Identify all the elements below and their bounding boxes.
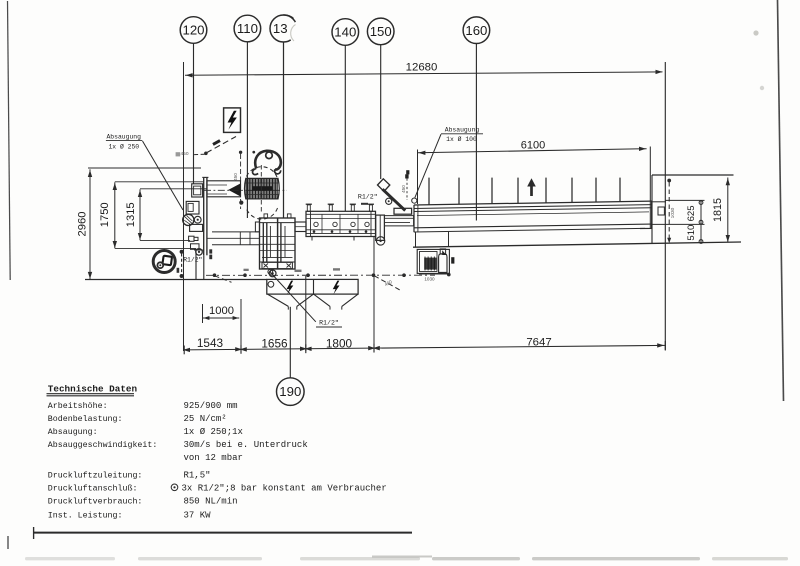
svg-text:Druckluftverbrauch:: Druckluftverbrauch: <box>48 497 143 507</box>
hopper funnels <box>268 294 289 306</box>
pedestal <box>195 250 197 279</box>
tiny scan specks <box>295 270 302 272</box>
centreline pin <box>239 151 242 154</box>
svg-text:120: 120 <box>182 23 204 38</box>
right reference line y=224.4 <box>652 223 705 225</box>
dim 1750 <box>114 182 116 248</box>
page right edge (scan) <box>778 0 784 401</box>
bolt pair <box>189 236 194 241</box>
svg-text:1x Ø 250: 1x Ø 250 <box>108 143 139 151</box>
svg-text:1800: 1800 <box>326 337 353 351</box>
hopper bolt left <box>287 281 294 295</box>
infeed axis mark <box>180 250 184 254</box>
svg-text:R1/2": R1/2" <box>358 194 378 201</box>
drive unit <box>417 249 449 273</box>
hopper body <box>267 279 358 294</box>
svg-text:925/900 mm: 925/900 mm <box>184 401 238 411</box>
cutter head barrel (striped) <box>245 178 280 199</box>
position bubble 120 <box>180 17 207 44</box>
svg-text:Druckluftanschluß:: Druckluftanschluß: <box>48 484 138 494</box>
svg-text:37 KW: 37 KW <box>184 511 212 521</box>
1750 top extension <box>115 181 203 183</box>
infeed rails <box>212 231 260 233</box>
lower box <box>190 224 203 231</box>
spindle centreline <box>204 189 287 191</box>
dim 12680 left extension <box>183 62 185 351</box>
position bubble 130 (scan blob hides the zero) <box>270 15 297 42</box>
svg-text:1030: 1030 <box>424 276 435 281</box>
svg-text:160: 160 <box>465 23 487 38</box>
top posts <box>264 214 268 218</box>
small circle right <box>412 198 417 203</box>
dim 1315 <box>139 189 141 240</box>
svg-text:3x R1/2";8 bar konstant am Ver: 3x R1/2";8 bar konstant am Verbraucher <box>182 484 387 494</box>
conveyor bed <box>414 201 652 205</box>
conveyor base <box>413 242 741 247</box>
position bubble 160 <box>463 17 490 44</box>
swing arm head <box>378 179 390 192</box>
svg-text:110: 110 <box>237 21 258 36</box>
cutter swing circle (dashed) <box>247 167 278 177</box>
air coupling <box>196 249 203 256</box>
bottom scan smudges <box>25 557 115 560</box>
leader wire 140 <box>344 45 346 211</box>
leader wire 110 <box>246 42 248 218</box>
1315 top extension <box>140 188 207 190</box>
svg-text:12680: 12680 <box>406 62 438 74</box>
control emblem <box>153 251 175 273</box>
bottom rule <box>33 532 412 534</box>
faint top-right smudge <box>753 30 758 35</box>
conveyor legs <box>415 232 417 247</box>
svg-text:6100: 6100 <box>521 140 545 152</box>
svg-text:1750: 1750 <box>99 202 111 227</box>
page left edge (scan) <box>8 1 11 280</box>
top box <box>192 184 203 197</box>
electric box (bolt) <box>224 108 241 132</box>
left step <box>255 222 259 232</box>
svg-text:7647: 7647 <box>526 337 551 349</box>
svg-text:510: 510 <box>686 225 697 241</box>
dim 1000 <box>203 317 239 319</box>
hopper bolt right <box>333 281 340 295</box>
dim 12680 line <box>185 72 663 75</box>
mid box <box>186 201 199 214</box>
dim 6100 line <box>418 149 647 153</box>
svg-text:25 N/cm²: 25 N/cm² <box>184 414 227 424</box>
svg-text:1656: 1656 <box>261 336 288 350</box>
dim 6100 left extension <box>417 150 419 205</box>
chain extension x=306 <box>305 276 307 351</box>
Absaugung100 leader <box>415 134 441 197</box>
svg-text:1543: 1543 <box>197 336 224 350</box>
svg-text:von 12 mbar: von 12 mbar <box>184 453 243 463</box>
svg-text:Bodenbelastung:: Bodenbelastung: <box>48 414 123 424</box>
right table centre (dashed) <box>668 182 670 240</box>
svg-text:625: 625 <box>686 205 697 221</box>
svg-text:1815: 1815 <box>712 198 724 222</box>
leader wire 160 <box>475 44 477 221</box>
svg-text:1315: 1315 <box>125 202 137 227</box>
svg-text:1x Ø 100: 1x Ø 100 <box>446 135 477 143</box>
position bubble 140 <box>332 19 359 46</box>
small spout marks <box>405 174 408 178</box>
small hangers under table <box>311 237 313 241</box>
svg-text:Druckluftzuleitung:: Druckluftzuleitung: <box>48 471 143 481</box>
svg-text:1030: 1030 <box>670 207 676 218</box>
svg-text:450: 450 <box>233 173 238 181</box>
leader wire 150 <box>380 45 382 179</box>
svg-text:Absaugung: Absaugung <box>445 127 480 134</box>
support wheel <box>269 270 276 277</box>
dim 6100 right extension <box>649 147 651 229</box>
svg-text:1000: 1000 <box>209 305 234 317</box>
svg-text:Technische Daten: Technische Daten <box>48 383 138 394</box>
2960 top extension <box>88 167 201 169</box>
main plate <box>203 178 205 255</box>
svg-text:R1,5": R1,5" <box>184 471 211 481</box>
floor centreline (dash-dot) <box>206 274 435 276</box>
middle unit base plate <box>262 262 292 268</box>
swing arm base block <box>394 208 412 214</box>
position bubble 190 <box>277 378 305 406</box>
connector bar <box>295 222 306 232</box>
chain extension x=241 <box>240 299 242 352</box>
svg-text:140: 140 <box>334 25 356 40</box>
outfeed table top edge <box>652 174 734 176</box>
svg-text:13: 13 <box>273 21 288 36</box>
fence pins <box>428 178 430 205</box>
svg-text:190: 190 <box>279 384 301 399</box>
small valve right of plate <box>209 249 212 253</box>
roller table bolts <box>314 222 318 226</box>
svg-text:2960: 2960 <box>76 212 88 237</box>
outfeed table bracket <box>652 201 666 203</box>
dashed drop from electric box <box>206 137 236 153</box>
Absaugung250 leader <box>143 141 184 210</box>
dim 1815 <box>727 178 729 243</box>
roller table posts <box>307 205 310 211</box>
spindle <box>207 181 241 197</box>
spindle cone <box>228 183 240 196</box>
roller table frame <box>306 211 376 236</box>
pusher block <box>376 215 385 240</box>
leader wire 120 <box>193 43 195 184</box>
fan circle (hatched) <box>183 214 194 225</box>
svg-text:850 NL/min: 850 NL/min <box>184 497 238 507</box>
middle unit body <box>260 218 296 269</box>
right reference line y=200.4 <box>665 199 704 201</box>
bottom-left crop mark <box>7 536 9 549</box>
pneumatic symbol + value <box>171 484 178 491</box>
svg-text:Arbeitshöhe:: Arbeitshöhe: <box>48 401 108 411</box>
dashed drop right <box>374 276 401 291</box>
position bubble 110 <box>234 15 261 42</box>
leader wire 190 <box>289 307 291 378</box>
direction arrow <box>530 185 533 196</box>
1750 bottom extension <box>115 247 196 249</box>
svg-text:1x Ø 250;1x: 1x Ø 250;1x <box>184 427 243 437</box>
chip hood (C clamp) <box>255 151 281 170</box>
pusher foot wheel <box>376 237 384 245</box>
swing arm <box>383 189 406 210</box>
position bubble 150 <box>367 18 394 45</box>
hopper spouts <box>287 306 289 309</box>
svg-text:Absaugung: Absaugung <box>106 133 141 140</box>
svg-text:30m/s bei e. Unterdruck: 30m/s bei e. Unterdruck <box>184 440 308 450</box>
chain extension x=374 <box>373 237 375 352</box>
dim 625 <box>700 200 702 224</box>
dim 510 <box>700 224 702 243</box>
black pin <box>406 170 409 174</box>
floor line <box>85 279 267 281</box>
pivot circle <box>386 198 392 204</box>
dim 2960 <box>89 169 91 279</box>
feed cylinder <box>384 215 413 217</box>
svg-text:Inst. Leistung:: Inst. Leistung: <box>48 511 123 521</box>
outfeed table left edge <box>651 175 653 244</box>
svg-text:450: 450 <box>180 151 188 157</box>
svg-text:450: 450 <box>401 185 406 193</box>
leader wire 130 <box>283 42 285 218</box>
cutter centreline <box>260 165 262 212</box>
svg-text:Absauggeschwindigkeit:: Absauggeschwindigkeit: <box>48 440 158 450</box>
1315 bottom extension <box>140 239 190 241</box>
svg-text:Absaugung:: Absaugung: <box>48 427 98 437</box>
dim 12680 right extension <box>664 62 666 351</box>
svg-text:R1/2": R1/2" <box>319 319 339 326</box>
bottom chain dimension line <box>184 345 666 349</box>
label R1/2 (hopper) <box>271 273 316 322</box>
svg-text:150: 150 <box>370 24 392 39</box>
svg-text:R1/2": R1/2" <box>183 257 202 264</box>
